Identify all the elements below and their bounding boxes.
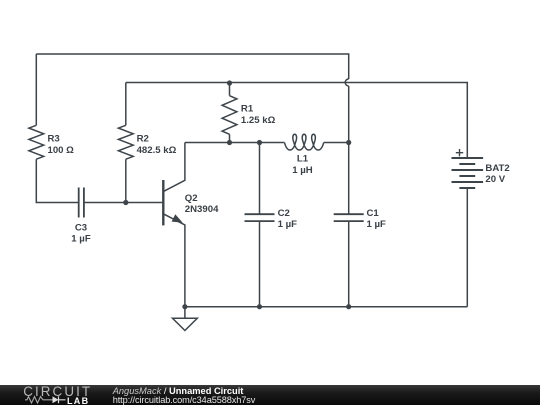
svg-text:C3: C3 [75,222,87,233]
svg-text:1 µF: 1 µF [71,234,91,245]
svg-text:C1: C1 [367,208,380,219]
svg-text:1 µF: 1 µF [278,219,298,230]
svg-text:Q2: Q2 [185,193,198,204]
svg-text:L1: L1 [297,154,309,165]
svg-text:1 µH: 1 µH [292,165,313,176]
svg-text:R1: R1 [241,104,254,115]
svg-text:BAT2: BAT2 [485,163,509,174]
svg-text:482.5 kΩ: 482.5 kΩ [137,145,177,156]
svg-text:100 Ω: 100 Ω [48,145,75,156]
svg-text:2N3904: 2N3904 [185,204,219,215]
svg-text:R3: R3 [48,133,60,144]
svg-text:R2: R2 [137,133,149,144]
svg-text:1 µF: 1 µF [367,219,387,230]
svg-text:1.25 kΩ: 1.25 kΩ [241,115,276,126]
svg-text:20 V: 20 V [485,174,505,185]
svg-text:C2: C2 [278,208,290,219]
